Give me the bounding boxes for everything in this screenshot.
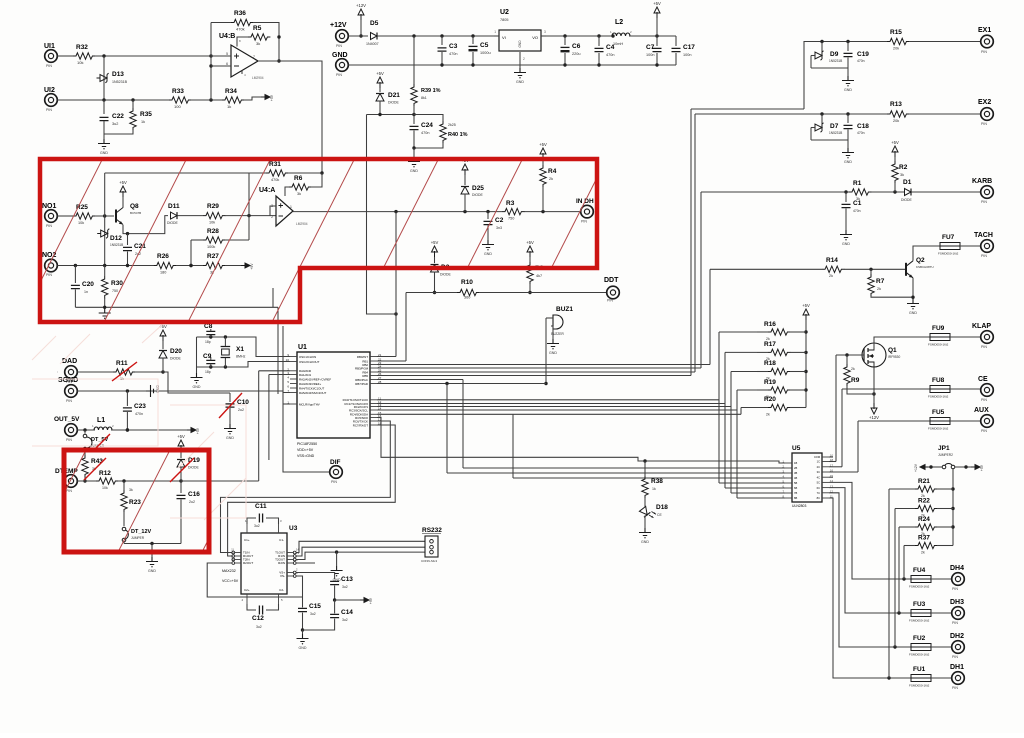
svg-text:R2IN: R2IN (278, 561, 285, 565)
svg-text:+12V: +12V (356, 3, 366, 8)
wire (95, 214, 114, 217)
svg-text:DIODE: DIODE (388, 101, 399, 105)
svg-text:U1: U1 (298, 344, 307, 351)
svg-text:R9: R9 (851, 377, 860, 384)
wire (718, 332, 720, 483)
wire JP1 rail (951, 468, 954, 546)
wire (909, 113, 981, 115)
wire top loop h (105, 172, 249, 174)
capacitor C5 (469, 36, 491, 65)
svg-text:6B: 6B (794, 486, 797, 490)
wire (903, 546, 905, 580)
capacitor C16 (177, 481, 201, 544)
svg-text:DIODE: DIODE (901, 198, 912, 202)
wire emitter (911, 278, 914, 299)
jumper JP1 (938, 445, 955, 469)
resistor R11 (113, 360, 135, 381)
svg-text:DDT: DDT (604, 277, 619, 284)
svg-text:KARB: KARB (972, 178, 992, 185)
ground right (146, 385, 160, 397)
wire NO2 row (57, 264, 154, 267)
wire (335, 599, 361, 601)
svg-text:3u2: 3u2 (112, 122, 118, 126)
wire DDT row (406, 292, 457, 294)
transistor Q8 (116, 203, 141, 225)
svg-text:470n: 470n (135, 412, 143, 416)
svg-text:R36: R36 (234, 10, 246, 17)
connector DDT (604, 277, 619, 303)
wire (176, 264, 203, 267)
capacitor C6 (561, 36, 581, 65)
wire (857, 421, 859, 472)
svg-text:20k: 20k (893, 47, 899, 51)
capacitor C1 (842, 192, 862, 230)
wire (367, 113, 416, 116)
wire (730, 372, 732, 494)
svg-text:C19: C19 (857, 51, 869, 58)
svg-text:+5V: +5V (539, 142, 547, 147)
svg-text:PIN: PIN (46, 108, 52, 112)
svg-text:D11: D11 (168, 203, 180, 210)
svg-text:+5V: +5V (802, 303, 810, 308)
svg-text:C14: C14 (341, 609, 353, 616)
wire (311, 173, 322, 187)
capacitor C2 (484, 212, 504, 240)
wire (405, 293, 407, 362)
capacitor C11 (247, 503, 279, 528)
wire RC0 (377, 399, 719, 401)
wire (950, 420, 981, 422)
svg-text:FSMD050-16t2: FSMD050-16t2 (928, 343, 949, 347)
resistor R43 (82, 455, 104, 483)
diode D19 (177, 450, 200, 481)
svg-text:GND: GND (844, 88, 852, 92)
pink ghost hatch (32, 324, 246, 520)
off-page arrow (360, 597, 373, 604)
wire RB1 (377, 360, 406, 362)
wire (841, 389, 843, 467)
svg-text:+5V: +5V (250, 263, 254, 270)
svg-text:C21: C21 (134, 243, 146, 250)
wire U5 7C to FU2 (829, 493, 911, 649)
svg-text:470k: 470k (236, 27, 245, 32)
svg-text:750: 750 (508, 217, 514, 221)
power +5V arrow (802, 303, 810, 320)
svg-text:FU1: FU1 (913, 666, 926, 673)
power +5V arrow (461, 158, 469, 175)
wire collector (913, 246, 941, 261)
svg-text:PIN: PIN (981, 398, 987, 402)
power +12V down arrow (869, 403, 879, 420)
svg-text:EX2: EX2 (978, 99, 991, 106)
svg-text:R13: R13 (890, 101, 902, 108)
resistor R12 (96, 470, 118, 490)
svg-text:R15: R15 (890, 29, 902, 36)
wire (911, 677, 952, 679)
wire (835, 355, 837, 462)
svg-text:+5V: +5V (119, 180, 127, 185)
resistor R4 (540, 159, 557, 212)
svg-text:1k: 1k (652, 487, 656, 491)
connector TACH (974, 232, 993, 258)
svg-text:220u: 220u (572, 52, 580, 56)
svg-text:3u2: 3u2 (310, 612, 316, 616)
wire KLAP row (874, 337, 930, 344)
svg-text:R12: R12 (99, 470, 111, 477)
wire (960, 245, 981, 247)
IC U1 PIC18F2550 (286, 344, 382, 458)
svg-text:GND: GND (148, 569, 156, 573)
svg-text:FU7: FU7 (942, 234, 955, 241)
capacitor C18 (844, 114, 870, 140)
svg-text:GND: GND (909, 311, 917, 315)
wire to U5 5B (719, 482, 785, 484)
svg-text:DIODE: DIODE (440, 273, 451, 277)
wire (804, 320, 807, 408)
svg-text:750: 750 (112, 289, 118, 293)
wire (888, 489, 890, 678)
svg-text:ULN2803: ULN2803 (792, 504, 806, 508)
wire RC7 to U3 (228, 425, 396, 556)
svg-text:VDD=+5V: VDD=+5V (297, 448, 314, 452)
svg-text:LM2904: LM2904 (252, 76, 264, 80)
wire (270, 206, 276, 216)
wire R2IN (296, 562, 315, 564)
svg-text:VSS=GND: VSS=GND (297, 454, 315, 458)
diode D21 (376, 88, 400, 115)
wire (57, 215, 73, 217)
svg-text:4C: 4C (817, 475, 820, 479)
power +5V arrow (653, 1, 661, 36)
ground (547, 339, 559, 355)
wire R1IN (296, 547, 424, 556)
svg-text:C13: C13 (341, 576, 353, 583)
svg-text:FU3: FU3 (913, 601, 926, 608)
svg-text:7C: 7C (817, 491, 820, 495)
wire (694, 114, 696, 372)
svg-text:+12V: +12V (869, 415, 879, 420)
red strike D19 (170, 458, 194, 482)
wire (211, 22, 231, 24)
capacitor C20 (71, 266, 94, 308)
svg-text:1B: 1B (794, 461, 797, 465)
svg-text:C1+: C1+ (244, 538, 250, 542)
connector +12V (330, 22, 348, 48)
wire (237, 37, 248, 43)
wire EX1 row (804, 40, 887, 109)
svg-text:L2: L2 (615, 19, 623, 26)
svg-text:PIN: PIN (981, 345, 987, 349)
wire RB0 (377, 356, 396, 358)
wire (724, 352, 726, 488)
resistor R10 (457, 279, 479, 300)
wire (844, 268, 905, 271)
transistor Q1 (862, 343, 900, 368)
svg-text:D7: D7 (830, 123, 839, 130)
svg-text:C18: C18 (857, 123, 869, 130)
svg-text:R26: R26 (157, 253, 169, 260)
svg-text:R43: R43 (91, 458, 103, 465)
wire (950, 388, 981, 390)
svg-text:GND: GND (549, 351, 557, 355)
jumper DT_5V (83, 430, 108, 457)
wire RC4b (513, 413, 741, 415)
svg-text:DIF: DIF (330, 459, 341, 466)
wire (191, 98, 222, 101)
svg-text:D9: D9 (830, 51, 839, 58)
svg-text:+5V: +5V (653, 1, 661, 6)
svg-text:R29: R29 (207, 203, 219, 210)
svg-text:R2: R2 (899, 164, 908, 171)
transistor Q2 (906, 257, 934, 278)
svg-text:AUX: AUX (974, 407, 989, 414)
svg-text:BUZ1: BUZ1 (556, 306, 573, 313)
wire (244, 97, 262, 100)
ground (146, 557, 158, 573)
svg-text:L1: L1 (97, 417, 105, 424)
resistor R33 (169, 88, 191, 109)
power +5V arrow (539, 142, 547, 159)
wire ground rail (348, 63, 676, 66)
off-page arrow 5V (261, 94, 274, 101)
fuse FU1 (909, 666, 931, 688)
svg-text:X1: X1 (236, 346, 244, 353)
svg-text:2k: 2k (877, 287, 881, 291)
wire (249, 172, 266, 174)
svg-text:+5V: +5V (376, 71, 384, 76)
svg-text:10k: 10k (209, 221, 215, 225)
svg-text:6C: 6C (817, 486, 820, 490)
fuse FU4 (909, 567, 931, 589)
svg-text:D25: D25 (472, 185, 484, 192)
svg-text:UI1: UI1 (44, 43, 55, 50)
svg-text:2: 2 (271, 215, 273, 219)
wire (928, 465, 942, 468)
connector SGND (58, 377, 78, 403)
resistor R34 (222, 88, 244, 109)
svg-text:RC7/RX/DT: RC7/RX/DT (353, 423, 368, 427)
svg-text:PIN: PIN (952, 587, 958, 591)
svg-text:DIODE: DIODE (188, 466, 199, 470)
svg-text:2k25: 2k25 (448, 123, 456, 127)
capacitor C8 (204, 323, 215, 344)
svg-text:C6: C6 (572, 43, 581, 50)
wire to R16 (719, 331, 757, 333)
svg-text:R32: R32 (76, 44, 88, 51)
svg-text:1C: 1C (817, 460, 820, 464)
svg-text:R33: R33 (172, 88, 184, 95)
wire (462, 380, 464, 469)
wire RC4 (377, 413, 513, 415)
resistor R27 (203, 253, 225, 275)
jumper DT_12V (122, 527, 151, 543)
wire to R18 (731, 371, 757, 373)
svg-text:7805: 7805 (500, 18, 508, 22)
wire (736, 390, 738, 498)
wire (225, 239, 249, 241)
wire to U5 3B (447, 472, 785, 474)
resistor R32 (73, 44, 95, 65)
svg-text:PIN: PIN (336, 73, 342, 77)
wire (196, 367, 198, 373)
power +5V arrow (431, 240, 439, 257)
resistor R39 (411, 36, 441, 115)
svg-text:RA5/AN4/SS/C2OUT: RA5/AN4/SS/C2OUT (299, 391, 327, 395)
wire (359, 20, 362, 38)
connector EX1 (978, 27, 993, 54)
capacitor C14 (303, 600, 354, 630)
svg-text:KLAP: KLAP (972, 323, 991, 330)
wire (258, 371, 260, 481)
connector CE (978, 376, 993, 402)
svg-text:JUMPER: JUMPER (131, 536, 145, 540)
svg-text:10k: 10k (102, 486, 108, 490)
svg-text:D13: D13 (112, 71, 124, 78)
svg-text:PIN: PIN (981, 50, 987, 54)
svg-text:PIN: PIN (46, 224, 52, 228)
resistor R2 (892, 157, 908, 192)
resistor R14 (822, 257, 844, 278)
wire EX2 row (695, 112, 887, 115)
resistor R18 (757, 360, 806, 381)
ground (98, 139, 110, 155)
svg-text:DT_12V: DT_12V (131, 529, 152, 535)
svg-text:8k1: 8k1 (421, 96, 427, 100)
svg-text:PIN: PIN (607, 299, 613, 303)
capacitor C12 (247, 604, 279, 629)
wire U5 3C to AUX (829, 471, 858, 473)
resistor R28 (203, 228, 225, 249)
svg-text:C5: C5 (480, 42, 489, 49)
wire DTEMP to RA0 (181, 480, 259, 482)
wire RC3 (377, 409, 737, 411)
svg-text:1N5231B: 1N5231B (829, 131, 842, 135)
svg-text:EX1: EX1 (978, 27, 991, 34)
svg-text:COM: COM (814, 455, 820, 459)
wire (709, 269, 711, 364)
wire U5 6C to FU3 (829, 488, 911, 615)
fuse FU7 (938, 234, 960, 256)
svg-text:7B: 7B (794, 491, 797, 495)
capacitor C4 (595, 36, 615, 65)
svg-text:3u2: 3u2 (254, 524, 260, 528)
svg-text:C17: C17 (683, 44, 695, 51)
svg-text:C12: C12 (252, 615, 264, 622)
wire to U5 4B (513, 477, 785, 479)
svg-text:+5V: +5V (891, 140, 899, 145)
svg-text:1: 1 (494, 30, 496, 34)
svg-text:U4:A: U4:A (259, 187, 275, 194)
svg-text:100n: 100n (683, 53, 691, 57)
wire T1OUT (296, 541, 424, 552)
svg-text:RA1/AN1: RA1/AN1 (299, 373, 311, 377)
capacitor C7 (646, 36, 662, 65)
connector AUX (974, 407, 993, 433)
wire RA1 (269, 375, 290, 461)
svg-text:R3: R3 (506, 200, 515, 207)
power +5V arrow (526, 240, 534, 257)
wire RB2 to TACH (377, 364, 710, 366)
svg-text:CE: CE (978, 376, 988, 383)
wire (272, 288, 274, 307)
wire to U5 2B (463, 467, 785, 469)
svg-text:R28: R28 (207, 228, 219, 235)
svg-text:PIN: PIN (981, 122, 987, 126)
svg-text:100k: 100k (207, 245, 215, 249)
capacitor C13 (330, 576, 353, 602)
connector GND (332, 52, 348, 77)
wire (413, 148, 415, 157)
svg-text:PIN: PIN (46, 273, 52, 277)
zener D12 (97, 216, 123, 266)
resistor R8 (527, 257, 544, 294)
svg-text:2u2: 2u2 (238, 408, 244, 412)
wire (162, 372, 230, 393)
svg-text:PIN: PIN (981, 254, 987, 258)
connector UI2 (44, 87, 57, 112)
svg-text:RB0/INT: RB0/INT (357, 355, 368, 359)
svg-text:PIN: PIN (981, 429, 987, 433)
svg-text:+5V: +5V (196, 427, 200, 434)
resistor R38 (642, 461, 664, 507)
svg-text:1: 1 (290, 205, 292, 209)
svg-text:JUMPER2: JUMPER2 (938, 453, 953, 457)
svg-text:2k: 2k (829, 274, 833, 278)
wire (135, 370, 165, 373)
svg-text:D12: D12 (110, 235, 122, 242)
svg-text:R35: R35 (140, 111, 152, 118)
diode D11 (167, 203, 180, 225)
wire (124, 542, 181, 545)
resistor R1 (849, 180, 871, 201)
svg-text:R14: R14 (826, 257, 838, 264)
off-page arrow 5V (241, 263, 254, 270)
capacitor C9 (203, 353, 215, 374)
wire to R17 (725, 351, 757, 353)
svg-text:5B: 5B (794, 481, 797, 485)
ground (842, 148, 854, 164)
svg-text:OSC2/CLKOUT: OSC2/CLKOUT (299, 360, 320, 364)
svg-text:UI2: UI2 (44, 87, 55, 94)
diode D1 (901, 179, 912, 202)
svg-text:7: 7 (253, 55, 255, 59)
svg-text:MAX232: MAX232 (222, 569, 236, 573)
svg-text:FSMD050-16t2: FSMD050-16t2 (928, 395, 949, 399)
wire top loop (104, 173, 106, 216)
wire (253, 23, 281, 63)
wire (479, 292, 607, 294)
svg-text:+5V: +5V (980, 464, 984, 471)
resistor R25 (73, 204, 95, 225)
connector RS232 (421, 527, 442, 563)
resistor R36 (231, 10, 253, 32)
wire to U5 8B (737, 497, 785, 499)
power +5V arrow (177, 434, 185, 451)
ground (907, 299, 919, 315)
svg-text:470n: 470n (857, 131, 865, 135)
wire to U5 6B (725, 487, 785, 489)
svg-text:1k: 1k (227, 104, 231, 109)
power +5V arrow (159, 324, 167, 341)
wire (189, 240, 203, 267)
fuse FU8 (928, 377, 950, 399)
svg-text:8MHz: 8MHz (236, 355, 246, 359)
svg-text:5C: 5C (817, 481, 820, 485)
svg-text:8B: 8B (794, 496, 797, 500)
resistor R5 (248, 25, 270, 46)
svg-text:TACH: TACH (974, 232, 993, 239)
svg-text:GND: GND (100, 151, 108, 155)
